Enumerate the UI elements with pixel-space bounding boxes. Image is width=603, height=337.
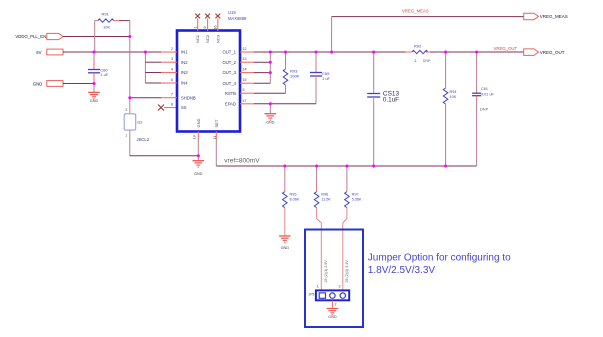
svg-text:C61: C61	[481, 87, 488, 91]
svg-text:SHDNB: SHDNB	[181, 95, 196, 100]
svg-text:IN1: IN1	[181, 50, 188, 55]
svg-text:Jumper Option for configuring: Jumper Option for configuring to	[368, 252, 511, 263]
svg-text:VREG_OUT: VREG_OUT	[494, 46, 518, 51]
svg-text:16: 16	[213, 26, 217, 30]
svg-text:VREG_MEAS: VREG_MEAS	[540, 14, 568, 19]
svg-text:6: 6	[243, 88, 245, 92]
svg-text:1 uF: 1 uF	[100, 72, 109, 77]
svg-text:2: 2	[171, 47, 173, 51]
svg-text:9: 9	[203, 27, 207, 29]
svg-text:0.01 uF: 0.01 uF	[481, 93, 495, 97]
svg-text:IN3: IN3	[181, 70, 188, 75]
svg-text:R91: R91	[102, 11, 110, 16]
svg-text:GND: GND	[266, 121, 275, 125]
svg-text:25 (2)(3) 3.3V: 25 (2)(3) 3.3V	[345, 260, 349, 283]
svg-text:8: 8	[171, 103, 173, 107]
svg-text:RSTB: RSTB	[225, 91, 236, 96]
svg-text:J12: J12	[137, 121, 143, 125]
svg-text:1: 1	[125, 134, 127, 138]
svg-text:25 (2)(1) 2.5V: 25 (2)(1) 2.5V	[324, 260, 328, 283]
svg-text:IN4: IN4	[181, 81, 188, 86]
svg-text:NC2: NC2	[205, 34, 210, 43]
svg-text:vref=800mV: vref=800mV	[224, 158, 260, 165]
svg-text:SS: SS	[181, 105, 187, 110]
svg-text:4: 4	[171, 68, 173, 72]
svg-text:NC3: NC3	[215, 34, 220, 43]
svg-text:1: 1	[317, 285, 319, 289]
svg-text:1: 1	[193, 27, 197, 29]
svg-text:6: 6	[171, 78, 173, 82]
svg-text:R94: R94	[450, 90, 457, 94]
svg-text:1 uF: 1 uF	[322, 76, 331, 81]
svg-text:13: 13	[243, 57, 247, 61]
svg-text:10: 10	[192, 135, 196, 139]
svg-text:GND: GND	[328, 315, 337, 319]
svg-text:DNP: DNP	[423, 59, 431, 63]
svg-text:GND: GND	[90, 99, 99, 103]
svg-text:OUT_2: OUT_2	[223, 60, 237, 65]
svg-text:MAX8869: MAX8869	[228, 16, 247, 21]
svg-text:VDDO_PLL_EN: VDDO_PLL_EN	[15, 34, 46, 39]
svg-text:NC1: NC1	[195, 34, 200, 43]
svg-text:GND: GND	[194, 172, 203, 176]
svg-text:SET: SET	[214, 119, 219, 127]
svg-text:DNP: DNP	[480, 107, 489, 112]
svg-text:7: 7	[171, 93, 173, 97]
svg-text:10K: 10K	[103, 25, 110, 30]
svg-text:3: 3	[339, 285, 341, 289]
svg-text:R95: R95	[290, 193, 297, 197]
svg-text:15: 15	[243, 78, 247, 82]
svg-text:10K: 10K	[450, 95, 457, 99]
svg-text:R96: R96	[321, 193, 328, 197]
svg-text:GND: GND	[33, 81, 43, 86]
svg-text:11.5K: 11.5K	[321, 198, 331, 202]
svg-text:2: 2	[335, 302, 337, 306]
svg-text:VREG_OUT: VREG_OUT	[540, 50, 565, 55]
svg-text:2: 2	[125, 108, 127, 112]
svg-text:IN2: IN2	[181, 60, 188, 65]
svg-text:U19: U19	[228, 10, 236, 15]
svg-text:3: 3	[171, 57, 173, 61]
svg-text:R92: R92	[414, 43, 422, 48]
svg-text:5.36K: 5.36K	[352, 198, 362, 202]
svg-text:100K: 100K	[290, 73, 300, 78]
svg-text:EPAD: EPAD	[225, 101, 236, 106]
svg-text:8.06K: 8.06K	[290, 198, 300, 202]
svg-text:JSCL2: JSCL2	[137, 137, 150, 142]
svg-text:OUT_1: OUT_1	[223, 50, 237, 55]
svg-text:JP5: JP5	[309, 292, 315, 296]
svg-text:VREG_MEAS: VREG_MEAS	[402, 8, 429, 13]
svg-text:0.1uF: 0.1uF	[383, 97, 399, 104]
svg-text:11: 11	[213, 136, 217, 140]
svg-text:12: 12	[243, 47, 247, 51]
svg-text:GND: GND	[281, 246, 290, 250]
svg-text:14: 14	[243, 68, 247, 72]
svg-text:OUT_4: OUT_4	[223, 81, 237, 86]
svg-text:R97: R97	[352, 193, 359, 197]
svg-text:6V: 6V	[36, 50, 41, 55]
svg-text:17: 17	[243, 99, 247, 103]
svg-text:OUT_3: OUT_3	[223, 70, 237, 75]
svg-text:GND: GND	[196, 119, 201, 128]
svg-text:1.8V/2.5V/3.3V: 1.8V/2.5V/3.3V	[368, 265, 436, 276]
